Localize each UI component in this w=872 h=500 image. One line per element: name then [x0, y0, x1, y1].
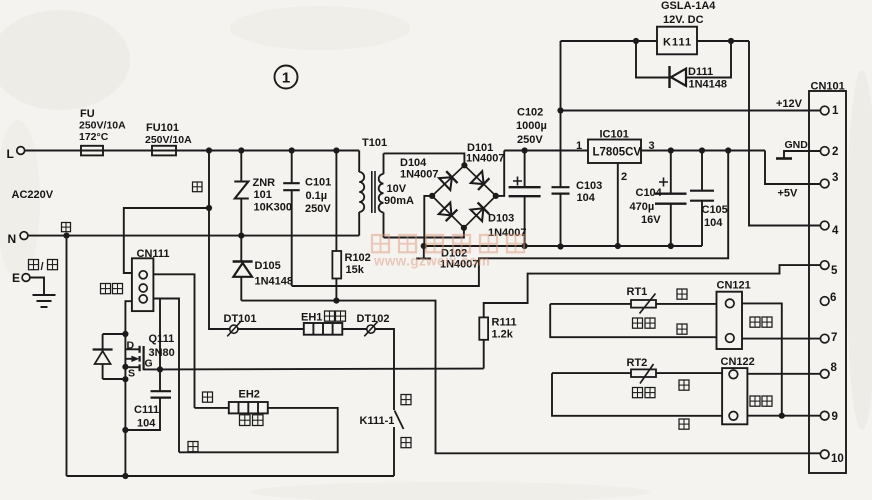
svg-text:K111-1: K111-1: [360, 415, 395, 427]
svg-text:1: 1: [832, 105, 839, 117]
connector CN111: [132, 258, 154, 311]
pin CN101-1: [820, 106, 829, 115]
capacitor C111: [151, 390, 172, 392]
svg-text:C111: C111: [134, 404, 159, 416]
svg-text:10K300: 10K300: [254, 202, 293, 214]
switch DT101: [230, 325, 238, 333]
svg-text:250V: 250V: [305, 203, 331, 215]
wire +5V to pin3: [765, 151, 820, 185]
heater EH2: [229, 402, 268, 413]
svg-text:4: 4: [832, 225, 839, 237]
wire FU to FU101: [103, 150, 152, 152]
svg-text:104: 104: [577, 192, 596, 204]
svg-text:CN122: CN122: [721, 356, 755, 368]
wire D111 right rise: [687, 41, 731, 78]
pin CN101-8: [820, 370, 829, 379]
svg-text:S: S: [128, 368, 135, 380]
wire L input: [25, 150, 81, 152]
connector CN121: [717, 292, 743, 349]
wire CN111 pin1 to EH2 feed: [153, 274, 194, 408]
pin CN121-1: [726, 299, 735, 308]
svg-text:15k: 15k: [346, 264, 365, 276]
node relay-D111 left: [633, 38, 639, 44]
svg-text:470µ: 470µ: [630, 201, 655, 213]
op-amp-style box IC101 L7805CV: [588, 140, 641, 164]
pin CN111-1: [139, 271, 147, 279]
bridge rectifier edges: [432, 165, 496, 228]
svg-text:1N4007: 1N4007: [400, 169, 439, 181]
svg-text:D105: D105: [255, 260, 281, 272]
wire CN111 left exit to MOSFET column: [125, 301, 131, 476]
wire N line: [28, 235, 359, 237]
wire RT1 to CN121: [656, 303, 717, 305]
wire CN122 pin1 to pin8: [747, 373, 820, 375]
wire C102 top lead: [524, 151, 526, 188]
svg-text:DT101: DT101: [224, 313, 257, 325]
svg-text:0.1µ: 0.1µ: [306, 190, 328, 202]
wire C105 top lead: [701, 151, 703, 191]
wire DT101 to EH1: [238, 328, 304, 330]
pin CN111-2: [139, 284, 147, 292]
svg-text:RT1: RT1: [627, 286, 648, 298]
node R102 junction: [333, 147, 339, 153]
label heise (black) at CN122: [750, 396, 760, 406]
heater EH1: [304, 323, 343, 335]
svg-text:2: 2: [832, 146, 838, 158]
thermistor RT2: [631, 369, 656, 377]
diode D111: [668, 66, 670, 88]
label zhufan (cook) at EH1: [325, 311, 335, 321]
svg-text:1.2k: 1.2k: [492, 329, 514, 341]
svg-text:CN111: CN111: [137, 248, 170, 260]
wire RT1 row: [550, 303, 631, 305]
wire IC101 pin2 to ground: [617, 163, 619, 246]
connector CN122: [722, 368, 747, 424]
svg-text:101: 101: [254, 189, 272, 201]
wire CN111 gate stub: [159, 299, 161, 370]
svg-text:EH2: EH2: [239, 389, 260, 401]
wire EH1 to DT102: [342, 328, 367, 330]
wire pin10 line: [241, 301, 820, 454]
node C111 return: [122, 427, 128, 433]
svg-text:5: 5: [831, 265, 838, 277]
transformer T101 secondary: [383, 153, 385, 174]
fuse FU101: [152, 146, 176, 156]
pin CN111-3: [139, 295, 147, 303]
wire Q111 gate to node: [144, 368, 160, 370]
svg-text:C101: C101: [305, 177, 331, 189]
svg-text:9: 9: [832, 411, 838, 423]
connector CN101: [809, 91, 846, 473]
node L-heater junction: [206, 147, 212, 153]
wire relay to pin4: [749, 41, 820, 226]
svg-text:1N4148: 1N4148: [255, 276, 294, 288]
wire relay column: [560, 41, 562, 187]
svg-text:FU101: FU101: [146, 122, 179, 134]
svg-text:1: 1: [282, 70, 290, 87]
svg-text:C103: C103: [576, 180, 602, 192]
svg-text:Q111: Q111: [149, 333, 175, 345]
svg-text:IC101: IC101: [600, 129, 629, 141]
node L terminal: [17, 147, 25, 155]
wire N to D105: [240, 236, 242, 261]
node pin9 junction: [779, 413, 785, 419]
capacitor C101: [283, 182, 300, 184]
svg-text:CN121: CN121: [717, 280, 751, 292]
node red branch junction: [206, 205, 212, 211]
svg-text:C104: C104: [636, 187, 663, 199]
capacitor C104: [655, 192, 687, 194]
node C101 junction: [289, 147, 295, 153]
wire protect diode top: [103, 333, 126, 335]
wire R102 bottom lead: [335, 279, 337, 301]
wire bridge plus to DC rail: [496, 151, 504, 196]
wire DC rail to IC101: [504, 150, 588, 152]
wire IC101 out rail: [641, 150, 765, 152]
svg-text:10: 10: [831, 453, 844, 465]
wire CN121 pin1 to pin9 node: [742, 303, 782, 415]
wire heater feed down to DT101: [209, 151, 230, 330]
svg-text:1N4148: 1N4148: [689, 79, 728, 91]
label baowen (keep warm) at EH2: [240, 415, 251, 426]
node C102 ground: [522, 243, 528, 249]
label lan (blue) at K111-1: [401, 395, 411, 405]
diode D102: [439, 203, 452, 216]
wire K111-1 bottom to rail: [393, 427, 395, 476]
fuse FU: [81, 146, 103, 156]
wire C105 bottom lead: [701, 201, 703, 246]
pin CN101-5: [820, 261, 829, 270]
wire CN111 pin3 loop return: [153, 299, 179, 453]
pin CN101-7: [820, 334, 829, 343]
svg-text:250V/10A: 250V/10A: [145, 134, 192, 146]
wire ground rail: [424, 245, 702, 247]
node bridge bottom: [461, 225, 467, 231]
node ground rail left: [421, 243, 427, 249]
label guodi (pot bottom): [633, 318, 643, 328]
wire pin2 GND stub: [784, 151, 820, 158]
label guoce (pot side): [633, 388, 643, 398]
svg-text:250V/10A: 250V/10A: [79, 120, 126, 132]
svg-text:3: 3: [832, 172, 838, 184]
pin CN122-2: [729, 412, 738, 421]
wire N branch down to bottom rail: [66, 236, 68, 476]
node bridge right: [493, 193, 499, 199]
svg-text:1000µ: 1000µ: [516, 120, 547, 132]
label lan (blue) 1: [203, 392, 213, 402]
svg-text:DT102: DT102: [357, 313, 390, 325]
pin CN121-2: [726, 334, 735, 343]
svg-text:+5V: +5V: [778, 188, 799, 200]
svg-text:250V: 250V: [517, 134, 543, 146]
node bridge minus stub: [423, 246, 425, 258]
node relay-D111 right: [728, 38, 734, 44]
label hei (black) RT2 top: [679, 380, 689, 390]
label hei (black wire at N): [62, 223, 71, 232]
node C103 ground: [557, 243, 563, 249]
wire C102 bottom lead: [524, 196, 526, 246]
svg-text:FU: FU: [80, 108, 95, 120]
wire D111 left drop: [636, 41, 669, 78]
node protect diode bottom: [122, 376, 128, 382]
node IC101 pin2 ground: [615, 243, 621, 249]
capacitor C102: [509, 186, 541, 188]
transformer T101 primary: [358, 151, 360, 173]
pin CN101-4: [820, 221, 829, 230]
node C104 ground: [668, 243, 674, 249]
wire DT102 to relay contact: [375, 329, 394, 410]
wire R111 top to pin5: [484, 265, 821, 317]
svg-text:D: D: [127, 340, 135, 352]
wire C101 node to +5V riser: [292, 151, 729, 287]
wire C103 bottom lead: [560, 194, 562, 247]
wire ZNR top lead: [240, 151, 242, 182]
svg-text:EH1: EH1: [301, 312, 322, 324]
svg-text:D104: D104: [400, 157, 427, 169]
wire secondary bottom to bridge: [384, 228, 464, 238]
wire C111 bottom lead: [125, 398, 160, 430]
svg-text:G: G: [145, 358, 153, 370]
svg-text:K111: K111: [663, 37, 692, 49]
node Q111 source: [122, 364, 128, 370]
wire C104 top lead: [670, 151, 672, 194]
svg-text:T101: T101: [362, 137, 387, 149]
label bai (white) RT1 top: [677, 289, 687, 299]
node ZNR-N junction: [238, 233, 244, 239]
diode gate-protect (unlabelled): [102, 334, 104, 349]
label lan (blue) 2: [188, 442, 198, 452]
svg-text:12V. DC: 12V. DC: [663, 14, 704, 26]
resistor R102: [332, 251, 341, 279]
node N junction: [63, 233, 69, 239]
wire RT2 to CN122: [656, 372, 722, 374]
node ZNR junction: [238, 147, 244, 153]
svg-text:L: L: [7, 147, 14, 161]
wire bottom rail: [67, 475, 395, 477]
watermark: [372, 235, 389, 252]
wire relay left: [561, 40, 658, 42]
varistor ZNR: [234, 182, 249, 199]
wire gate line: [160, 368, 484, 371]
ground earth symbol at E: [33, 294, 56, 296]
pin CN101-6: [820, 297, 829, 306]
pin CN101-9: [820, 411, 829, 420]
svg-text:ZNR: ZNR: [253, 177, 276, 189]
svg-text:7: 7: [831, 332, 837, 344]
relay K111: [657, 27, 697, 55]
svg-text:172°C: 172°C: [79, 131, 109, 143]
wire C101 bottom lead: [291, 190, 293, 286]
pin CN101-3: [820, 179, 829, 188]
svg-text:/: /: [41, 261, 44, 273]
wire ZNR to N: [240, 199, 242, 236]
wire EH2 left lead: [195, 407, 229, 409]
svg-text:CN101: CN101: [811, 81, 845, 93]
node bridge left: [429, 193, 435, 199]
svg-text:104: 104: [704, 217, 723, 229]
svg-text:104: 104: [137, 418, 156, 430]
svg-text:R111: R111: [492, 317, 517, 329]
svg-text:N: N: [8, 232, 17, 246]
node N terminal: [20, 232, 28, 240]
svg-text:3: 3: [649, 140, 655, 152]
label bai (white) RT1 bottom: [677, 324, 687, 334]
node gate: [157, 366, 163, 372]
diode D101: [471, 171, 484, 184]
label baise (white) at CN121: [750, 317, 760, 327]
wire RT2 return row: [552, 373, 722, 416]
svg-text:RT2: RT2: [627, 357, 648, 369]
capacitor C105: [690, 190, 714, 192]
label hei (black) at K111-1: [401, 438, 411, 448]
wire R102 top lead: [335, 151, 337, 252]
svg-text:90mA: 90mA: [384, 195, 414, 207]
node C104 top: [668, 147, 674, 153]
svg-text:R102: R102: [345, 252, 371, 264]
pin CN101-10: [820, 450, 829, 459]
transformer T101 core: [371, 171, 373, 213]
label hong (red wire): [193, 182, 203, 192]
svg-text:C105: C105: [702, 204, 728, 216]
wire CN121 pin2 to pin7: [742, 338, 820, 340]
wire bridge minus to ground rail: [424, 196, 432, 246]
wire secondary top to bridge: [384, 153, 465, 165]
svg-text:8: 8: [831, 362, 838, 374]
wire relay right: [697, 40, 749, 42]
resistor R111: [479, 317, 488, 339]
node C105 top: [699, 147, 705, 153]
svg-text:L7805CV: L7805CV: [593, 147, 642, 159]
node +12V tap: [557, 107, 563, 113]
pin CN122-1: [729, 370, 738, 379]
svg-text:E: E: [12, 271, 20, 285]
svg-text:+12V: +12V: [776, 98, 803, 110]
label huang/lv (yellow/green): [29, 260, 39, 270]
wire RT1 return row: [550, 304, 716, 337]
circled figure number 1: [275, 66, 298, 89]
svg-text:6: 6: [830, 292, 836, 304]
svg-text:www.gzweix.com: www.gzweix.com: [373, 254, 490, 269]
switch K111-1 relay contact: [395, 411, 404, 430]
svg-text:1N4007: 1N4007: [466, 153, 505, 165]
svg-text:GSLA-1A4: GSLA-1A4: [661, 0, 716, 12]
svg-text:16V: 16V: [641, 214, 661, 226]
pin CN101-2: [820, 147, 829, 156]
wire E to ground: [30, 278, 44, 295]
svg-text:D103: D103: [488, 213, 514, 225]
svg-text:10V: 10V: [387, 183, 407, 195]
wire C101 top lead: [291, 151, 293, 184]
svg-text:2: 2: [621, 171, 627, 183]
diode D104: [439, 177, 452, 190]
wire +12V rail to pin1: [561, 110, 821, 112]
wire CN122 pin2 to pin9: [747, 415, 820, 417]
node C102 top: [522, 147, 528, 153]
node E terminal: [22, 274, 30, 282]
node Q111 drain: [122, 331, 128, 337]
thermistor RT1: [631, 300, 656, 308]
node source-rail junction: [122, 473, 128, 479]
node R102 bottom: [333, 298, 339, 304]
label baise (white) at CN111: [101, 284, 111, 294]
diode D105: [233, 260, 253, 262]
wire L rail: [176, 150, 359, 152]
wire RT2 row: [552, 372, 631, 374]
wire C111 top lead: [159, 369, 161, 391]
svg-text:D111: D111: [688, 66, 713, 78]
transistor Q111 (MOSFET 3N80): [125, 348, 139, 350]
wire red branch to CN111: [124, 208, 209, 273]
node +5V riser top: [725, 147, 731, 153]
wire protect diode bottom: [103, 378, 126, 380]
switch DT102: [367, 325, 375, 333]
diode D103: [471, 208, 484, 221]
svg-text:1: 1: [576, 140, 582, 152]
ground symbol GND: [776, 157, 792, 160]
label hei (black) RT2 bottom: [679, 419, 689, 429]
wire EH2 right loop: [179, 408, 338, 452]
svg-text:C102: C102: [517, 107, 543, 119]
wire R111 bottom to gate line: [483, 340, 485, 369]
svg-text:GND: GND: [785, 139, 809, 151]
svg-text:AC220V: AC220V: [12, 189, 54, 201]
capacitor C103: [552, 186, 570, 188]
wire D105 lead down: [240, 277, 242, 301]
node bridge top: [461, 162, 467, 168]
wire C104 bottom lead: [670, 204, 672, 246]
